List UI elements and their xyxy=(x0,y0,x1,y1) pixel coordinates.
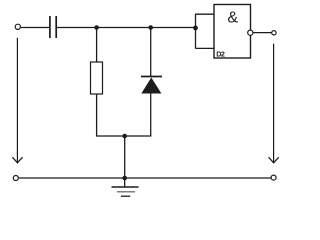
wire (junction down to diode cathode) xyxy=(150,28,152,77)
terminal (rail, bottom-right) xyxy=(271,175,276,180)
voltage arrow U2 (right, shaft) xyxy=(273,44,275,162)
wire (connector down to ground rail) xyxy=(124,136,126,178)
voltage arrow U1 (left, head) xyxy=(12,157,22,163)
wire (bottom connector R1 to diode) xyxy=(96,135,151,137)
inverter output bubble (negation circle) xyxy=(248,30,253,35)
wire (upper gate input stub) xyxy=(196,13,215,15)
diode V1 (cathode bar) xyxy=(141,76,162,78)
wire (input terminal to capacitor) xyxy=(21,27,49,29)
svg-text:&: & xyxy=(227,9,238,26)
node (gate input branch junction) xyxy=(193,26,198,31)
wire (bottom ground rail) xyxy=(18,177,271,179)
terminal (rail, bottom-left) xyxy=(13,176,18,181)
node (junction on ground rail) xyxy=(122,176,127,181)
wire (diode anode down) xyxy=(150,94,152,137)
svg-text:D2: D2 xyxy=(216,49,225,58)
node (junction on bottom connector) xyxy=(122,134,127,139)
voltage arrow U1 (left, shaft) xyxy=(16,38,18,162)
nand gate D2 (body) xyxy=(214,5,251,59)
wire (gate output to output terminal) xyxy=(253,32,272,34)
capacitor C1 xyxy=(50,16,56,38)
wire (junction down to resistor top) xyxy=(96,28,98,63)
voltage arrow U2 (right, head) xyxy=(269,157,279,163)
wire (resistor bottom down) xyxy=(96,94,98,136)
diode V1 (anode triangle, pointing up) xyxy=(141,78,161,94)
terminal X1 (input, top-left) xyxy=(15,24,20,29)
wire (lower gate input stub) xyxy=(196,47,215,49)
ground xyxy=(112,178,139,196)
wire (capacitor to gate-input branch) xyxy=(57,27,195,29)
resistor R1 xyxy=(91,62,103,94)
node (junction above resistor R1) xyxy=(94,25,99,30)
wire (branch vertical between gate inputs) xyxy=(195,14,197,49)
node (junction above diode) xyxy=(148,25,153,30)
terminal X2 (output, right) xyxy=(272,31,276,35)
